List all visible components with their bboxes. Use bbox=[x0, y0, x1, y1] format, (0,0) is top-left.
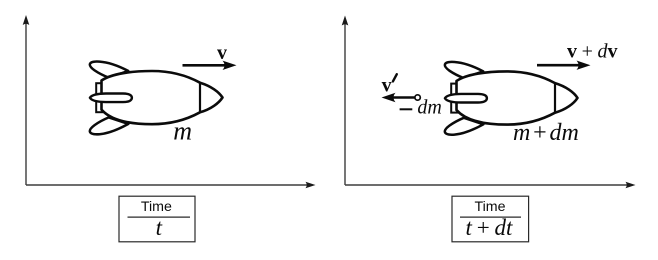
left y-axis bbox=[25, 22, 27, 185]
rocket tail block bbox=[96, 83, 102, 112]
ejected-mass velocity arrow v' bbox=[392, 96, 415, 99]
svg-text:dm: dm bbox=[417, 96, 441, 118]
velocity arrow v (left panel) bbox=[183, 64, 227, 67]
svg-text:t: t bbox=[156, 215, 163, 240]
svg-text:v: v bbox=[382, 74, 392, 96]
velocity arrow v+dv bbox=[537, 64, 580, 67]
svg-text:Time: Time bbox=[474, 199, 505, 215]
rocket top fin bbox=[90, 61, 128, 77]
right x-axis arrowhead bbox=[626, 182, 636, 189]
left y-axis arrowhead bbox=[23, 15, 30, 25]
right rocket (m+dm) bbox=[445, 62, 578, 135]
right time box bbox=[452, 196, 529, 242]
left x-axis bbox=[26, 184, 308, 186]
svg-text:v+dv: v+dv bbox=[567, 41, 617, 63]
svg-text:m: m bbox=[173, 117, 192, 146]
right y-axis bbox=[344, 23, 346, 185]
rocket middle fin bbox=[90, 94, 132, 103]
rocket bottom fin bbox=[90, 117, 129, 134]
rocket body bbox=[102, 71, 223, 124]
svg-text:m+dm: m+dm bbox=[513, 120, 579, 146]
label -dm bbox=[400, 108, 413, 110]
ejected mass circle dm bbox=[415, 95, 420, 100]
right y-axis arrowhead bbox=[342, 16, 349, 26]
left time box bbox=[119, 196, 195, 242]
right x-axis bbox=[345, 184, 628, 186]
left rocket bbox=[90, 61, 223, 134]
left x-axis arrowhead bbox=[306, 182, 316, 189]
rocket nose-cone base line bbox=[199, 83, 201, 112]
svg-text:Time: Time bbox=[141, 199, 172, 215]
svg-text:v: v bbox=[217, 42, 227, 64]
